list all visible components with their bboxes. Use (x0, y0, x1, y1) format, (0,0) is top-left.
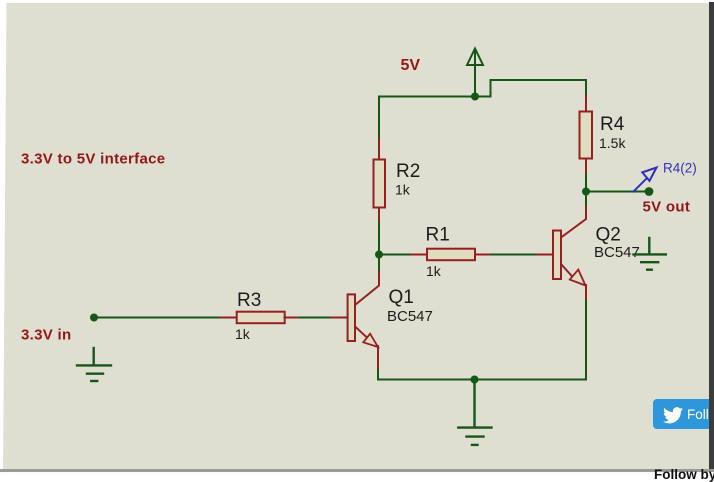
svg-text:Q2: Q2 (596, 225, 621, 246)
wire Q1 emitter down (377, 370, 379, 380)
svg-text:Q1: Q1 (389, 287, 414, 308)
resistor R1 (427, 249, 475, 261)
junction node base Q1 / R1 / R2 (375, 251, 383, 259)
pin stub R4 bottom (585, 159, 587, 176)
wire Q2 collector to out node (585, 192, 587, 205)
node 5V out (645, 187, 654, 196)
wire power to R4 step (475, 80, 586, 97)
svg-text:R2: R2 (396, 161, 420, 182)
svg-text:R1: R1 (426, 225, 450, 246)
node 3.3V in (90, 314, 98, 322)
pin stub R4 top (585, 96, 587, 112)
wire Q2 emitter down (585, 301, 587, 380)
junction node bottom ground (471, 376, 479, 384)
wire node to R1 (379, 254, 412, 256)
resistor R3 (237, 312, 285, 324)
voltage probe R4(2) (634, 168, 657, 192)
ground near Q2 (634, 238, 666, 270)
wire input to R3 (94, 317, 221, 319)
wire Q1 collector to node (378, 255, 380, 271)
junction node collector Q2 / R4 (582, 188, 590, 196)
wire R2 bottom to node (378, 223, 380, 255)
pin stub R1 right (475, 254, 491, 256)
wire out node to probe node (586, 191, 649, 193)
pin stub R3 left (221, 317, 238, 319)
svg-text:5V out: 5V out (643, 199, 691, 216)
pin stub Q1 base (332, 317, 348, 319)
wire R3 to Q1 base (299, 317, 332, 319)
label Follow by (bottom) (654, 467, 714, 482)
svg-text:3.3V to 5V interface: 3.3V to 5V interface (21, 151, 165, 168)
svg-text:R4(2): R4(2) (663, 161, 697, 176)
pin stub R3 right (285, 317, 301, 319)
svg-text:5V: 5V (401, 57, 421, 74)
svg-text:1k: 1k (395, 182, 411, 198)
svg-text:BC547: BC547 (387, 308, 433, 325)
pin stub Q2 base (537, 254, 553, 256)
ground bottom center (458, 380, 491, 445)
resistor R2 (374, 160, 386, 208)
wire bottom rail (378, 379, 586, 381)
twitter bird icon (663, 407, 683, 424)
junction node at power (471, 93, 479, 101)
wire R4 to out node (585, 174, 587, 192)
svg-text:1k: 1k (235, 326, 251, 342)
ground at 3.3V input (77, 348, 111, 381)
svg-text:1k: 1k (426, 263, 442, 279)
svg-text:BC547: BC547 (594, 244, 640, 261)
wire 5V rail to R2 (379, 96, 475, 98)
transistor Q2 (553, 203, 586, 302)
transistor Q1 (348, 269, 379, 371)
power symbol 5V arrow (467, 49, 483, 96)
svg-text:3.3V in: 3.3V in (21, 327, 71, 344)
twitter follow button (653, 399, 714, 429)
pin stub R2 bottom (378, 208, 380, 225)
resistor R4 (580, 112, 593, 159)
twitter follow text (687, 407, 714, 422)
svg-text:R3: R3 (237, 290, 261, 311)
pin stub R1 left (411, 254, 427, 256)
svg-text:1.5k: 1.5k (599, 135, 626, 151)
pin stub R2 top (378, 139, 380, 160)
svg-text:R4: R4 (600, 114, 625, 135)
wire R2 top vertical (378, 97, 380, 141)
wire R1 to Q2 base (491, 254, 538, 256)
